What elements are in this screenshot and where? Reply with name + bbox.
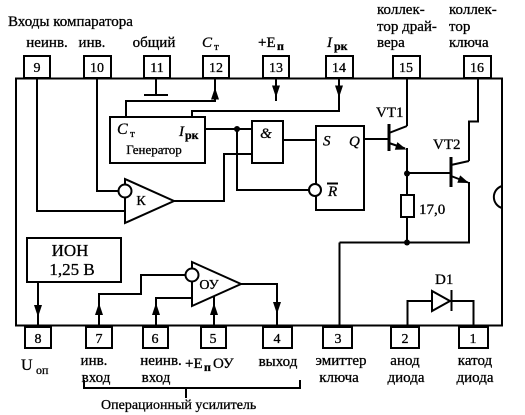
wire VT2 collector to pin 16	[469, 79, 478, 161]
svg-text:тор драй-: тор драй-	[377, 19, 437, 35]
bracket under op-amp pins	[84, 380, 300, 398]
wire reference to pin 8	[37, 282, 39, 326]
svg-text:диода: диода	[456, 370, 493, 386]
svg-text:анод: анод	[390, 353, 420, 369]
svg-text:U: U	[21, 357, 33, 374]
svg-text:эмиттер: эмиттер	[315, 353, 366, 369]
svg-text:выход: выход	[259, 354, 298, 370]
pin 15 box	[393, 56, 420, 78]
wire op-amp output to pin 4	[241, 284, 277, 326]
svg-text:Операционный усилитель: Операционный усилитель	[101, 398, 256, 413]
svg-text:ключа: ключа	[449, 35, 489, 51]
RS flip-flop	[316, 126, 364, 210]
svg-text:C: C	[117, 121, 128, 138]
AND gate	[252, 121, 283, 163]
svg-text:инв.: инв.	[81, 353, 108, 369]
svg-text:вера: вера	[377, 35, 405, 51]
svg-text:рк: рк	[334, 39, 348, 53]
arrowhead into pin 12	[211, 88, 219, 100]
svg-text:вход: вход	[82, 370, 111, 386]
svg-text:3: 3	[335, 332, 342, 347]
junction dot generator output branch	[234, 126, 240, 132]
svg-text:ИОН: ИОН	[52, 241, 89, 260]
wire generator output to AND gate	[205, 128, 252, 130]
svg-text:4: 4	[274, 332, 281, 347]
package key notch on right edge	[494, 186, 502, 208]
ground symbol (pin 11 common)	[144, 79, 168, 95]
svg-text:9: 9	[34, 61, 41, 76]
svg-text:диода: диода	[387, 370, 424, 386]
wire pin 10 to comparator inverting bubble	[97, 79, 119, 191]
svg-text:Генератор: Генератор	[126, 142, 181, 157]
pin 8 box	[25, 327, 51, 348]
svg-text:R: R	[327, 184, 337, 200]
pin 3 box	[323, 327, 352, 348]
svg-text:12: 12	[209, 61, 223, 76]
generator block	[110, 117, 205, 163]
wire pin 14 to generator Iрк input	[192, 79, 339, 117]
svg-text:инв.: инв.	[79, 35, 106, 51]
pin 7 box	[86, 327, 112, 348]
pin 2 box	[391, 327, 419, 348]
pin 4 box	[263, 327, 292, 348]
svg-text:коллек-: коллек-	[377, 2, 425, 18]
emitter rail wire	[340, 242, 471, 244]
svg-text:15: 15	[399, 61, 413, 76]
svg-text:ключа: ключа	[319, 370, 359, 386]
svg-text:10: 10	[90, 61, 104, 76]
comparator inverting input bubble	[119, 185, 132, 198]
diode D1	[432, 272, 453, 311]
pin 16 box	[464, 56, 491, 78]
svg-text:Q: Q	[349, 134, 360, 150]
comparator K output wire to AND gate	[174, 154, 252, 201]
svg-text:1: 1	[470, 332, 477, 347]
wire generator Ct to pin 12	[126, 79, 215, 117]
arrowhead to pin 4	[273, 302, 281, 314]
svg-text:неинв.: неинв.	[26, 35, 68, 51]
wire VT1 emitter down and to VT2 base	[407, 148, 450, 195]
svg-text:I: I	[178, 124, 185, 140]
svg-text:неинв.: неинв.	[140, 353, 182, 369]
svg-text:C: C	[202, 35, 213, 51]
svg-text:т: т	[214, 41, 219, 53]
pin 14 box	[326, 56, 353, 78]
IC body outline	[16, 79, 502, 326]
wire diode cathode to pin 1	[450, 301, 474, 327]
svg-text:VT2: VT2	[433, 137, 461, 153]
wire branch to flip-flop R input	[237, 129, 309, 190]
reference ИОН 1,25 В	[27, 238, 121, 282]
svg-text:п: п	[204, 360, 211, 374]
svg-text:16: 16	[470, 61, 484, 76]
wire VT2 emitter down to rail	[468, 182, 470, 243]
transistor VT2	[433, 137, 470, 187]
op-amp ОУ	[192, 262, 241, 306]
pin 6 box	[143, 327, 168, 348]
pin 10 box	[84, 56, 111, 78]
svg-text:т: т	[130, 128, 135, 140]
svg-text:катод: катод	[458, 353, 493, 369]
wire pin 2 to diode anode	[408, 301, 433, 327]
wire pin 6 to op-amp noninverting input	[156, 298, 192, 326]
svg-text:+Е: +Е	[185, 356, 203, 372]
svg-text:D1: D1	[435, 272, 453, 288]
svg-text:7: 7	[96, 332, 103, 347]
wire resistor bottom to emitter rail	[406, 217, 408, 243]
junction dot VT1 emitter node	[404, 171, 410, 177]
wire Q output to VT1 base	[364, 138, 388, 140]
svg-text:общий: общий	[133, 35, 176, 51]
svg-text:оп: оп	[36, 363, 49, 377]
svg-text:8: 8	[35, 332, 42, 347]
wire pin 9 to comparator noninverting input	[37, 79, 125, 211]
svg-text:&: &	[260, 126, 272, 142]
arrowhead pin 13	[272, 86, 280, 98]
svg-text:К: К	[136, 194, 146, 209]
svg-text:1,25 В: 1,25 В	[49, 260, 94, 279]
pin 12 box	[203, 56, 229, 78]
svg-text:VT1: VT1	[376, 105, 404, 121]
wire AND output to S input	[283, 139, 316, 141]
svg-text:5: 5	[210, 332, 217, 347]
svg-text:I: I	[326, 35, 333, 51]
svg-text:2: 2	[402, 332, 409, 347]
svg-text:ОУ: ОУ	[199, 278, 218, 293]
arrowhead pin 7	[95, 303, 103, 315]
svg-text:17,0: 17,0	[419, 202, 445, 218]
junction dot on emitter rail	[404, 240, 410, 246]
svg-text:13: 13	[269, 61, 283, 76]
svg-text:+Е: +Е	[258, 35, 276, 51]
svg-text:11: 11	[150, 61, 163, 76]
pin 13 box	[263, 56, 289, 78]
svg-text:рк: рк	[185, 128, 199, 142]
svg-text:п: п	[277, 39, 284, 53]
pin 11 box	[144, 56, 170, 78]
svg-text:вход: вход	[142, 370, 171, 386]
svg-text:ОУ: ОУ	[213, 356, 234, 372]
wire rail down to pin 3	[339, 243, 341, 328]
svg-text:14: 14	[332, 61, 346, 76]
pin 1 box	[459, 327, 488, 348]
svg-text:коллек-: коллек-	[449, 2, 497, 18]
svg-text:тор: тор	[449, 19, 470, 35]
arrowhead pin 5	[210, 303, 218, 315]
svg-text:Входы компаратора: Входы компаратора	[8, 14, 133, 30]
op-amp inverting bubble	[186, 269, 199, 282]
resistor 17,0	[401, 195, 445, 218]
wire pin 7 to op-amp inverting bubble	[99, 275, 186, 326]
pin 5 box	[201, 327, 226, 348]
wire pin 5 supply to op-amp	[213, 293, 215, 326]
transistor VT1	[376, 105, 408, 153]
arrowhead pin 14	[335, 86, 343, 98]
wire pin 13 supply stub	[275, 79, 277, 101]
comparator K	[125, 179, 174, 223]
svg-text:6: 6	[152, 332, 159, 347]
wire VT1 collector to pin 15	[406, 79, 408, 126]
pin 9 box	[24, 56, 50, 78]
arrowhead pin 6	[152, 303, 160, 315]
svg-text:S: S	[323, 134, 331, 150]
arrowhead to pin 8	[34, 305, 42, 317]
R input inversion bubble	[309, 184, 321, 196]
